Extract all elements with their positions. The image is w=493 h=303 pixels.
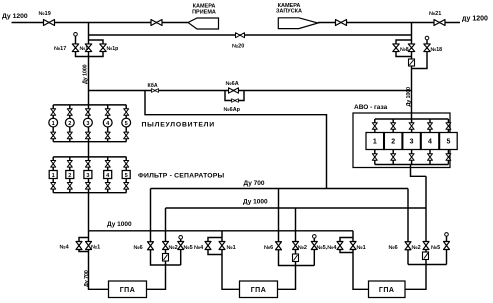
wire line A right (Ду1200 outlet) xyxy=(318,22,460,24)
valve no1 GPA2 xyxy=(219,242,225,250)
check valve GPA1 xyxy=(163,254,169,262)
svg-text:№1: №1 xyxy=(80,46,89,52)
svg-text:Ду 700: Ду 700 xyxy=(244,180,265,187)
svg-text:5: 5 xyxy=(446,139,450,146)
dust collector vessels 1-5 xyxy=(49,118,131,127)
wire GPA2 no5 vent stem xyxy=(313,238,315,265)
valve no19 xyxy=(44,20,55,26)
wire GPA1 no5 vent stem xyxy=(180,239,182,265)
svg-text:Ду 1000: Ду 1000 xyxy=(243,199,268,206)
GPA1 box xyxy=(109,281,147,298)
valve no6 GPA2 xyxy=(276,242,282,250)
svg-text:№5,№4: №5,№4 xyxy=(317,245,338,251)
valve no1 GPA3 xyxy=(350,242,356,250)
wire Du1000 suction manifold xyxy=(89,230,354,232)
svg-text:ГПА: ГПА xyxy=(120,287,136,294)
label camera zapuska xyxy=(276,3,302,15)
wire GPA2 no6 recycle riser xyxy=(279,189,315,266)
valve no4 GPA3 xyxy=(337,242,343,250)
svg-text:2: 2 xyxy=(391,139,395,146)
valve no1p bypass xyxy=(100,44,106,52)
svg-text:Ду 700: Ду 700 xyxy=(84,270,90,287)
svg-text:№6: №6 xyxy=(264,245,273,251)
svg-text:№1: №1 xyxy=(227,245,236,251)
svg-text:№8: №8 xyxy=(400,47,409,53)
valve no1 main left xyxy=(85,44,91,52)
wire Du700 header xyxy=(151,188,409,190)
svg-text:5: 5 xyxy=(125,173,128,179)
svg-text:№5: №5 xyxy=(431,245,440,251)
vent circle GPA2 xyxy=(313,235,317,239)
wire no6A bypass loop xyxy=(225,91,244,101)
wire filter branch 5 xyxy=(125,157,127,193)
svg-text:1: 1 xyxy=(373,139,377,146)
check valve GPA2 xyxy=(293,254,299,262)
GPA3 box xyxy=(369,281,406,298)
wire GPA3 blowoff header xyxy=(408,264,447,266)
wire AVO column 3 xyxy=(411,119,413,165)
wire line A left (Ду1200 inlet) xyxy=(12,22,189,24)
valve no6 GPA3 xyxy=(405,242,411,250)
svg-text:№21: №21 xyxy=(429,11,441,17)
check valve main right xyxy=(409,59,415,66)
wire KbA line xyxy=(89,90,412,92)
svg-text:№2: №2 xyxy=(169,245,178,251)
wire line B bypass xyxy=(89,34,412,36)
wire AVO exit jog xyxy=(411,165,427,177)
svg-text:ПРИЕМА: ПРИЕМА xyxy=(192,10,216,16)
valve no5 GPA2 xyxy=(311,242,317,250)
camera zapuska (pig launcher) xyxy=(278,18,318,29)
filter top valves row xyxy=(51,161,129,168)
valve no6 GPA1 xyxy=(148,242,154,250)
svg-text:ду 1200: ду 1200 xyxy=(462,16,488,23)
svg-text:№6А: №6А xyxy=(226,81,239,87)
wire dust collectors bottom manifold xyxy=(53,141,126,143)
filter bottom valves row xyxy=(51,183,129,190)
svg-text:3: 3 xyxy=(86,173,89,179)
wire left bypass loop xyxy=(76,36,104,56)
valve no21 xyxy=(434,20,445,26)
wire dust collector branch 5 xyxy=(125,105,127,142)
dust collector bottom valves row xyxy=(51,132,129,139)
wire GPA1 suction xyxy=(89,231,109,289)
dust collector top valves row xyxy=(51,109,129,116)
wire GPA3 no6 recycle riser xyxy=(407,189,409,265)
valve at receiver xyxy=(151,20,162,26)
svg-text:4: 4 xyxy=(428,139,432,146)
valve no6Ap xyxy=(232,99,239,103)
svg-text:Ду 1200: Ду 1200 xyxy=(2,13,28,20)
valve no2 GPA1 xyxy=(163,242,169,250)
vent circle no17 xyxy=(74,33,78,37)
svg-text:ЗАПУСКА: ЗАПУСКА xyxy=(276,9,302,15)
wire GPA1 no6 recycle riser xyxy=(151,189,181,266)
wire dust collector branch 4 xyxy=(107,105,109,142)
svg-text:№20: №20 xyxy=(232,44,244,50)
wire dust collectors top manifold xyxy=(53,104,126,106)
svg-text:ПЫЛЕУЛОВИТЕЛИ: ПЫЛЕУЛОВИТЕЛИ xyxy=(142,122,215,129)
valve no4 GPA1 xyxy=(76,242,82,250)
wire AVO column 1 xyxy=(374,119,376,165)
valve no1 GPA1 xyxy=(86,242,92,250)
svg-text:№6Ар: №6Ар xyxy=(224,107,241,113)
wire AVO column 2 xyxy=(392,119,394,165)
wire GPA2 suction xyxy=(222,231,240,289)
svg-text:1: 1 xyxy=(52,121,55,127)
wire AVO column 4 xyxy=(429,119,431,165)
vent circle GPA3 xyxy=(445,233,449,237)
svg-text:ГПА: ГПА xyxy=(251,287,267,294)
AVO top valves row xyxy=(372,123,451,130)
wire AVO top manifold xyxy=(375,118,449,120)
svg-text:№2: №2 xyxy=(298,245,307,251)
vent circle no18 xyxy=(425,36,429,40)
valve no2 GPA2 xyxy=(293,242,299,250)
svg-text:2: 2 xyxy=(68,121,71,127)
label camera priema xyxy=(192,4,216,16)
wire GPA3 no5 vent stem xyxy=(446,236,448,264)
wire right bypass loop xyxy=(396,40,412,57)
svg-text:ГПА: ГПА xyxy=(379,287,395,294)
AVO bottom valves row xyxy=(372,154,451,161)
AVO gas cooler unit outline xyxy=(353,113,450,168)
wire Du1000 header xyxy=(166,207,427,209)
filter separator vessels 1-5 xyxy=(49,171,130,179)
svg-text:Ду 1000: Ду 1000 xyxy=(406,87,412,107)
wire filter bottom manifold xyxy=(53,192,126,194)
wire dust collector branch 1 xyxy=(52,105,54,142)
svg-text:АВО - газа: АВО - газа xyxy=(354,104,388,111)
valve no17 vent xyxy=(72,44,78,52)
valve no4 GPA2 xyxy=(205,242,211,250)
svg-text:№17: №17 xyxy=(54,46,66,52)
GPA2 box xyxy=(240,281,278,298)
svg-text:ФИЛЬТР - СЕПАРАТОРЫ: ФИЛЬТР - СЕПАРАТОРЫ xyxy=(138,173,225,180)
svg-text:№5: №5 xyxy=(184,245,193,251)
svg-text:КбА: КбА xyxy=(148,82,158,89)
valve no5 GPA1 xyxy=(178,242,184,250)
valve no5 GPA3 xyxy=(444,242,450,250)
svg-text:Ду 1000: Ду 1000 xyxy=(107,221,132,228)
svg-text:№1: №1 xyxy=(357,245,366,251)
svg-text:№1: №1 xyxy=(91,245,100,251)
wire GPA3 suction bypass loop xyxy=(340,238,353,253)
valve main right xyxy=(408,44,414,52)
svg-text:5: 5 xyxy=(125,121,128,127)
valve no6A xyxy=(229,88,239,93)
wire dust collector branch 2 xyxy=(69,105,71,142)
valve at launcher xyxy=(336,20,347,26)
wire GPA3 discharge riser to AVO xyxy=(405,176,426,289)
wire vent branch no18 xyxy=(412,40,428,69)
valve no2 GPA3 xyxy=(423,242,429,250)
wire filter branch 4 xyxy=(107,157,109,193)
wire AVO bottom manifold xyxy=(375,164,449,166)
svg-text:№2: №2 xyxy=(412,245,421,251)
valve no18 vent xyxy=(424,44,430,52)
svg-text:Ду 1000: Ду 1000 xyxy=(82,64,88,84)
wire left main vertical Ду1000 xyxy=(88,23,90,231)
check valve GPA3 xyxy=(423,252,429,260)
wire branch to Du700 header xyxy=(145,91,327,189)
valve no8 bypass xyxy=(393,44,399,52)
svg-text:№6: №6 xyxy=(134,245,143,251)
valve no20 xyxy=(235,33,244,38)
valve KbA xyxy=(151,89,158,93)
wire GPA2 discharge riser xyxy=(278,208,296,289)
svg-text:№1р: №1р xyxy=(107,46,119,52)
filter numbers xyxy=(52,173,128,179)
wire filter top manifold xyxy=(53,156,126,158)
svg-text:№18: №18 xyxy=(431,47,443,53)
svg-text:3: 3 xyxy=(86,121,89,127)
svg-text:№6: №6 xyxy=(389,245,398,251)
vent circle GPA1 xyxy=(179,236,183,240)
svg-text:№4: №4 xyxy=(194,245,204,251)
svg-text:2: 2 xyxy=(68,173,71,179)
AVO numbers xyxy=(373,139,451,146)
wire GPA2 suction bypass loop xyxy=(208,238,222,255)
wire GPA1 discharge riser xyxy=(147,208,166,289)
svg-text:1: 1 xyxy=(52,173,55,179)
camera priema (pig receiver) xyxy=(188,18,219,29)
svg-text:3: 3 xyxy=(410,139,414,146)
AVO cells 1-5 xyxy=(366,133,457,150)
wire GPA3 suction xyxy=(353,231,369,289)
wire filter branch 2 xyxy=(69,157,71,193)
wire filter branch 1 xyxy=(52,157,54,193)
svg-text:№19: №19 xyxy=(39,11,51,17)
svg-text:№4: №4 xyxy=(60,245,70,251)
wire GPA1 suction bypass loop xyxy=(79,238,89,252)
wire AVO column 5 xyxy=(447,119,449,165)
dust collector numbers xyxy=(52,121,128,127)
wire right main vertical Ду1000 xyxy=(411,23,413,120)
